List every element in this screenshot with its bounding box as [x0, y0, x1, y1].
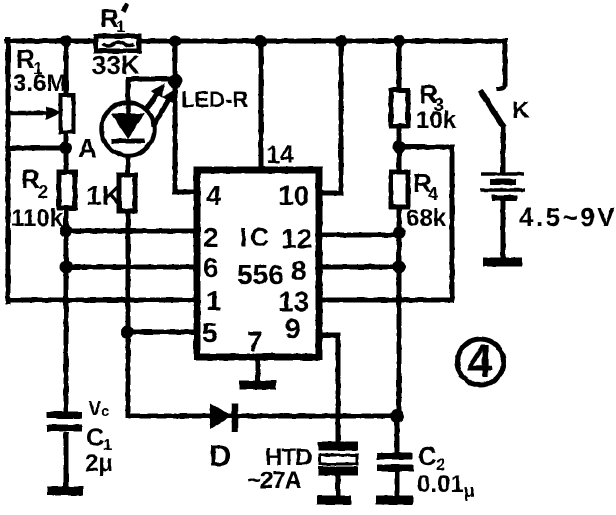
svg-text:D: D — [209, 438, 231, 473]
svg-text:2: 2 — [38, 182, 48, 202]
wire pin8 row — [319, 265, 399, 270]
svg-text:4.5~9V: 4.5~9V — [519, 202, 616, 232]
wire R2-C1 column — [64, 41, 69, 412]
svg-text:10: 10 — [278, 180, 309, 211]
svg-text:c: c — [101, 403, 109, 420]
switch K — [480, 84, 505, 128]
resistor R1' label — [92, 3, 140, 80]
wire left rail — [6, 39, 11, 302]
buzzer HTD-27A label — [247, 444, 312, 494]
buzzer HTD-27A body — [318, 446, 358, 471]
node junction top R3 — [393, 35, 405, 47]
svg-text:LED-R: LED-R — [181, 87, 248, 112]
wire pin12 row — [319, 233, 399, 238]
diode D — [210, 403, 235, 432]
wire HTD drop — [336, 476, 341, 496]
node C2 top — [390, 409, 404, 423]
node junction top-left — [60, 35, 72, 47]
svg-text:A: A — [78, 133, 97, 163]
svg-text:12: 12 — [281, 223, 312, 254]
svg-text:6: 6 — [203, 252, 219, 283]
svg-text:556: 556 — [237, 259, 284, 290]
resistor R2 body — [59, 172, 75, 208]
node pin6 — [60, 261, 73, 274]
svg-text:5: 5 — [202, 317, 218, 348]
svg-text:1: 1 — [116, 17, 125, 36]
svg-text:IC: IC — [240, 222, 272, 252]
wire R3R4 column — [397, 41, 402, 416]
svg-text:C: C — [86, 424, 104, 452]
capacitor C2 labels — [417, 441, 475, 501]
svg-text:K: K — [512, 97, 530, 124]
ground C2 — [376, 496, 413, 505]
wire pin4 feed — [175, 41, 197, 192]
svg-text:10k: 10k — [416, 107, 457, 134]
wire pin2 row — [66, 229, 197, 234]
ground HTD — [317, 496, 351, 505]
svg-text:14: 14 — [266, 141, 294, 169]
LED D1 — [102, 102, 155, 156]
ground C1 — [47, 487, 83, 496]
resistor R4 body — [391, 172, 408, 207]
svg-text:7: 7 — [247, 326, 263, 357]
wire pin6 row — [66, 265, 197, 270]
node R3-R4 — [393, 141, 406, 154]
wire LED-1k column — [128, 79, 175, 416]
svg-text:4: 4 — [206, 180, 222, 211]
svg-text:68k: 68k — [406, 205, 447, 232]
svg-text:2μ: 2μ — [85, 450, 113, 477]
resistor R2 label — [11, 164, 64, 232]
node junction top pin10 — [335, 35, 347, 47]
resistor R1' body — [96, 36, 139, 51]
wire top rail right — [139, 39, 504, 44]
svg-text:8: 8 — [291, 255, 307, 286]
resistor R1 label — [13, 44, 66, 97]
svg-text:V: V — [88, 398, 102, 420]
node junction top pin14 — [255, 35, 267, 47]
resistor R4 label — [406, 168, 447, 232]
node junction top pin4 — [169, 35, 181, 47]
wire top rail left — [7, 39, 96, 44]
LED arrows — [145, 84, 175, 127]
figure number 4 — [458, 335, 504, 387]
wire pin9 drop — [319, 335, 338, 442]
resistor 1k body — [119, 175, 135, 211]
node pin12 — [393, 227, 406, 240]
wire node A row — [8, 146, 66, 151]
svg-text:3.6M: 3.6M — [13, 70, 66, 97]
node A — [60, 142, 73, 155]
wire pin13 loop — [319, 147, 452, 300]
svg-text:9: 9 — [285, 313, 301, 344]
node pin8 — [393, 261, 406, 274]
node pin5 — [121, 326, 134, 339]
svg-text:4: 4 — [467, 335, 493, 387]
svg-text:C: C — [418, 441, 437, 471]
wire C2 drop — [395, 416, 400, 496]
svg-text:33K: 33K — [92, 50, 140, 80]
node LED feed — [168, 74, 182, 88]
svg-text:110k: 110k — [11, 205, 64, 232]
node pin2 — [60, 225, 73, 238]
wire pin10 feed — [319, 41, 341, 193]
capacitor C1 body — [47, 415, 82, 487]
svg-text:2: 2 — [203, 222, 219, 253]
battery BT1 — [480, 174, 525, 198]
wire diode row — [128, 414, 396, 419]
svg-text:4: 4 — [428, 184, 438, 204]
ground IC pin7 — [239, 357, 276, 385]
resistor R3 body — [391, 90, 408, 126]
capacitor C1 labels — [85, 398, 113, 477]
IC U1 556 body — [197, 170, 319, 357]
resistor R3 label — [416, 79, 457, 134]
svg-text:1: 1 — [206, 285, 222, 316]
ground battery — [483, 258, 522, 267]
svg-text:~27A: ~27A — [247, 467, 302, 494]
wire switch feed — [503, 41, 508, 84]
wire battery to ground — [501, 200, 506, 257]
wire pin5 row — [127, 330, 197, 335]
capacitor C2 body — [377, 456, 414, 468]
wire pin1 row — [8, 298, 197, 303]
svg-text:1K: 1K — [86, 180, 122, 211]
resistor R1 potentiometer body — [8, 95, 74, 132]
wire switch to battery — [501, 128, 506, 172]
wire pin14 feed — [259, 41, 264, 170]
